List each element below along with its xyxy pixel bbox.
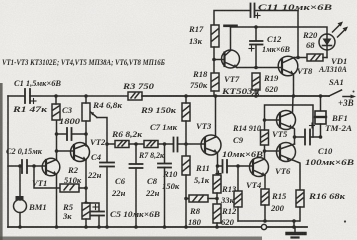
stray mark <box>344 220 346 222</box>
capacitor C5 <box>91 212 104 216</box>
wire VT5 collector to bus <box>292 96 295 113</box>
wire R13 to emitter tie <box>237 207 239 221</box>
resistor R2 <box>60 184 79 192</box>
earphone BF1 <box>315 96 326 137</box>
resistor R16 <box>296 190 304 207</box>
paper grain <box>0 0 1 1</box>
wire R12 to bus <box>216 223 218 227</box>
transistor VT1 <box>42 158 60 176</box>
resistor R5 <box>82 203 90 219</box>
capacitor C6 <box>130 144 143 227</box>
resistor R15 <box>261 189 269 205</box>
wire filter line seg3 <box>158 143 173 145</box>
wire C3 left <box>57 133 67 135</box>
ground <box>287 227 305 238</box>
transistor VT7 <box>222 50 240 68</box>
node filter input <box>105 142 109 146</box>
wire VT4 emitter to R15 <box>264 176 266 190</box>
resistor R11 <box>213 166 221 193</box>
resistor R3 (series in top bus) <box>128 92 142 100</box>
wire emitter tie line <box>238 220 299 222</box>
transistor VT8 <box>278 56 298 76</box>
wire R4 bottom to VT2 collector <box>85 121 87 146</box>
scan artifact bottom edge <box>0 237 262 240</box>
wire R4 wiper to filter <box>97 118 107 163</box>
wire filter line seg1 <box>107 143 115 145</box>
wire bottom bus (ground rail) <box>8 226 307 228</box>
capacitor C4 <box>100 163 114 167</box>
wire base to R2 <box>34 166 60 188</box>
wire tie to ground bus <box>293 221 295 227</box>
wire VT2 emitter column <box>85 160 87 203</box>
wire VT1 collector column <box>56 120 58 160</box>
resistor R10 <box>182 156 190 175</box>
wire R17 to base node <box>213 47 215 73</box>
wire R10 bottom to bus <box>185 175 187 227</box>
wire R9 top to bus <box>185 96 187 103</box>
capacitor C7 <box>174 138 178 152</box>
wire R4 top to bus <box>85 96 87 103</box>
wire R11 to R12 <box>216 193 218 204</box>
wire C7 to VT3 base <box>178 143 206 145</box>
wire VT8 collector <box>294 57 298 59</box>
wire VT7 base <box>214 59 225 61</box>
collector terminal tick <box>225 24 237 27</box>
switch SA1 <box>329 90 356 99</box>
wire VT2 base <box>57 150 75 152</box>
resistor R1 <box>52 104 60 120</box>
resistor R20 <box>298 54 327 61</box>
wire VT1 emitter to bus <box>56 174 58 227</box>
microphone BM1 <box>14 166 27 227</box>
wire VT5 base <box>265 119 281 121</box>
transistor VT6 <box>277 143 296 162</box>
transistor VT4 <box>250 158 269 177</box>
capacitor C2 <box>22 160 27 173</box>
wire VT6 emitter to R16 <box>293 160 301 190</box>
wire VT7 collector line <box>231 27 328 34</box>
wire VT7 emitter to VT8 base <box>237 67 282 69</box>
wire VT6 base <box>265 150 281 152</box>
wire mic input <box>8 165 21 167</box>
transistor VT3 <box>201 135 221 155</box>
wire VT4 collector <box>264 145 266 159</box>
resistor R8 <box>186 195 217 202</box>
wire R19 to bus <box>255 90 257 96</box>
wire left border <box>7 96 9 227</box>
wire R16 to tie <box>299 207 301 221</box>
wire VT7 collector up <box>230 27 232 51</box>
resistor R9 <box>182 103 190 121</box>
wire R5 to bus <box>85 219 87 227</box>
wire filter line seg2 <box>129 143 144 145</box>
wire R14 top / bootstrap line <box>265 105 314 137</box>
wire top bus mid segment <box>30 95 128 97</box>
transistor VT2 <box>71 143 90 162</box>
resistor R12 <box>213 204 221 223</box>
scan artifact left edge <box>0 83 3 240</box>
capacitor C11 <box>251 4 255 18</box>
trimmer R4 <box>82 103 97 121</box>
wire C5 link <box>86 203 99 211</box>
wire VT3 collector to bus <box>215 96 217 137</box>
wire C11 line <box>214 11 250 26</box>
wire R15 to tie <box>264 205 266 221</box>
capacitor C3 <box>67 128 72 140</box>
resistor R19 <box>252 73 260 90</box>
LED VD1 <box>319 22 348 58</box>
wire R2 to VT2 emitter column <box>79 187 86 189</box>
resistor R13 <box>234 166 242 207</box>
wire output node <box>294 128 295 144</box>
connector node (open circle) on bus <box>261 224 266 229</box>
resistor R7 <box>144 141 158 148</box>
capacitor C12 <box>249 27 263 68</box>
node C3 left <box>55 132 59 136</box>
resistor R6 <box>115 141 129 148</box>
wire top bus right segment <box>142 95 329 97</box>
wire C3 right <box>72 133 87 135</box>
wire R1 to bus <box>55 96 57 104</box>
wire top bus left segment <box>8 95 24 97</box>
wire R18 to bus <box>213 91 215 96</box>
wire C11 to right column <box>255 10 299 12</box>
resistor R18 <box>211 73 219 91</box>
wire C2 to VT1 base <box>27 165 45 167</box>
capacitor C9 <box>216 160 253 176</box>
transistor VT5 <box>277 111 296 130</box>
wire VT3 emitter down <box>217 153 219 167</box>
resistor R17 <box>211 25 219 47</box>
wire C4 to bus <box>106 167 108 228</box>
wire C5 to bus <box>98 216 100 228</box>
capacitor C1 (series in top bus) <box>25 89 30 103</box>
wire VT8 emitter to bus <box>293 74 295 96</box>
node VT2 base wire <box>55 149 59 153</box>
wire C11 column right <box>297 11 299 58</box>
resistor R14 <box>261 130 269 145</box>
node base VT1 <box>32 164 36 168</box>
capacitor C10 <box>295 123 321 145</box>
wire R9 bottom to base node <box>185 121 187 156</box>
capacitor C8 <box>158 144 171 227</box>
